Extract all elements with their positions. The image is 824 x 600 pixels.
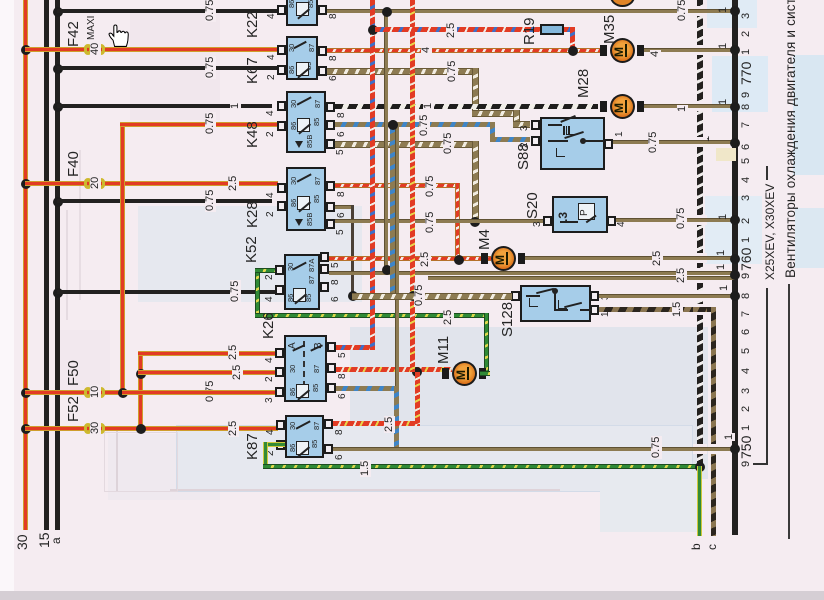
label 1	[423, 102, 434, 110]
label F42	[66, 21, 81, 47]
motor cut at top edge	[610, 0, 635, 7]
S88 internals	[548, 124, 562, 126]
label 1	[230, 102, 241, 110]
label 30	[90, 421, 101, 435]
pin K87/4	[276, 420, 285, 430]
node F50/x122	[118, 388, 128, 398]
wire red vertical x122 (to K48 pin2 / from F50)	[120, 122, 125, 393]
label 20	[90, 176, 101, 190]
label 0.75	[205, 189, 216, 212]
label X25XEV, X30XEV	[764, 184, 776, 280]
node x386 top	[382, 7, 392, 17]
label 2.5	[652, 250, 663, 267]
pin S88/3	[531, 120, 540, 130]
node x140/K26pin2 wire	[136, 369, 146, 379]
node track 763	[730, 6, 740, 16]
label 0.75 F50 wire	[205, 380, 216, 403]
wire M35 to track 761 (brown 4)	[644, 48, 735, 52]
pin K48/8	[326, 102, 335, 112]
wire K26 pin8 red/yellow to M11	[336, 367, 452, 372]
wire K48 pin6 blue/brown	[335, 122, 495, 127]
pin K52/6	[320, 282, 329, 292]
wire blue/brown jog down to S88 pin2	[490, 122, 495, 140]
wire S128 pin3 to track 753 (brown 1)	[599, 294, 735, 298]
label 0.75	[447, 60, 458, 83]
wire F50 cont. to K26 pin3 (red 0.75)	[122, 390, 278, 395]
fuse F40 wire	[25, 181, 278, 186]
wire K28 pin5 brown to S20 pin3	[335, 219, 545, 223]
bus connector track line x735	[732, 0, 738, 535]
wire riser brown x386	[384, 11, 388, 271]
label K22	[245, 11, 260, 38]
wire x122 corner to K48 pin2 (red 0.75)	[120, 122, 278, 127]
node x386 bottom	[382, 265, 392, 275]
motor M28	[600, 101, 607, 112]
label F50	[66, 360, 81, 386]
node track 759	[730, 270, 740, 280]
wire green loop from K52 pin2	[255, 268, 260, 318]
label 2.5	[443, 309, 454, 326]
label 2.5 F52 wire	[228, 420, 239, 437]
wire K28 pin6 brown to x352	[335, 205, 354, 209]
label 4	[650, 50, 661, 58]
node K48pin6/riser (redraw)	[388, 120, 398, 130]
label M11	[436, 336, 451, 364]
wire K26 pin5 red/blue to x372 riser	[336, 345, 374, 350]
label M4	[477, 229, 492, 250]
switch S20	[552, 196, 608, 233]
bus a (black vertical)	[55, 0, 60, 530]
label M35	[602, 15, 617, 44]
pin K26/5	[327, 342, 336, 352]
label K28	[245, 201, 260, 228]
pin K26/8	[327, 363, 336, 373]
pin K48/2	[277, 121, 286, 131]
mouse hand cursor	[106, 22, 131, 49]
pin K67/4	[277, 45, 286, 55]
wire busA to K28 pin2 (black 0.75)	[57, 199, 272, 203]
paper margin left	[0, 0, 14, 600]
wire blue/brown vertical x397 down	[394, 386, 399, 449]
wire S88 pin1 to track 757 (brown 0.75)	[613, 140, 735, 144]
label S88	[516, 143, 531, 170]
wire busA to K67 pin2 (black 0.75)	[57, 66, 277, 70]
pin K87/8	[324, 419, 333, 429]
pale background panel right top	[712, 56, 768, 112]
pin K87/2	[276, 440, 285, 450]
pale background panel mid-left	[138, 206, 362, 302]
label S128	[500, 302, 515, 337]
node bus30/F52	[21, 424, 31, 434]
label 15	[37, 532, 51, 548]
label 1.5	[672, 301, 683, 318]
node track 753	[730, 291, 740, 301]
label K26	[261, 312, 276, 339]
node busA/K52 wire	[53, 288, 63, 298]
pale background panel right upper corner	[707, 0, 757, 28]
wire K52 pin5 red/white to M4	[329, 256, 491, 261]
label 2.5 F40 wire	[228, 175, 239, 192]
label R19	[522, 17, 537, 45]
wire riser blue/brown x392 to S128 wire	[390, 122, 395, 296]
node M4 feed	[454, 255, 464, 265]
label K52	[244, 236, 259, 263]
node track 757	[730, 138, 740, 148]
fuse F42	[84, 44, 92, 55]
pale background panel far right lower	[795, 208, 824, 268]
label 40	[90, 42, 101, 56]
bus 30 (red vertical battery bus)	[23, 0, 28, 530]
pin K52/8	[320, 264, 329, 274]
label 1	[719, 285, 730, 291]
label F40	[66, 151, 81, 177]
node busA/K48 wire	[53, 102, 63, 112]
label 2.5	[232, 364, 243, 381]
wire K67 pin6 brown/white to S88	[327, 68, 477, 75]
pale background panel bottom left	[108, 434, 220, 500]
wire K22 pin8 to track 763 (brown 0.75)	[327, 9, 735, 13]
wire green/yellow long to node b (1.5)	[263, 464, 699, 469]
node track 752	[730, 215, 740, 225]
node bus30/F42	[21, 45, 31, 55]
fuse F42 wire	[25, 47, 278, 52]
node M11 feed / K87 riser	[412, 367, 422, 377]
wire K87 pin8 red/yellow to riser x417	[333, 421, 420, 426]
label 0.75	[443, 132, 454, 155]
pin K26/4	[275, 348, 284, 358]
wire busA to K52 pin4 (black 0.75)	[57, 290, 275, 294]
wire green down to node b	[697, 466, 702, 536]
node bus30/F40	[21, 179, 31, 189]
wire red/white vertical x458 down to M4 wire	[455, 183, 460, 261]
pin K52/4	[275, 285, 284, 295]
label 0.75	[205, 112, 216, 135]
wire K87 pin2 green down	[263, 442, 285, 447]
wire K87 pin6 brown to track 751	[333, 447, 735, 451]
label 0.75	[419, 114, 430, 137]
pin K28/4	[277, 183, 286, 193]
pin K67/2	[277, 65, 286, 75]
node busA/K67 wire	[53, 64, 63, 74]
bracket X25XEV section	[766, 166, 768, 180]
node x475/S20 wire	[470, 217, 480, 227]
gauge labels near connector	[718, 7, 729, 13]
pin S128/1	[590, 305, 599, 315]
wire K48 pin8 black/white to M28	[335, 104, 598, 109]
wire red riser x372	[370, 0, 375, 350]
motor M35	[600, 45, 607, 56]
S128 internals	[526, 295, 540, 297]
label 0.75	[677, 0, 688, 22]
relay K26	[284, 335, 327, 402]
pin K28/2	[277, 201, 286, 211]
label 4	[421, 46, 432, 54]
pin K28/5	[326, 219, 335, 229]
fuse F52 wire	[25, 426, 278, 431]
pale background panel bottom wide	[176, 425, 693, 492]
relay K22	[286, 0, 318, 26]
wire green into M11 right	[480, 371, 490, 376]
motor M11	[442, 368, 449, 379]
wire brown/white to S88 jog	[472, 110, 518, 117]
relay K87	[285, 415, 324, 458]
pin K26/2	[275, 367, 284, 377]
paper bottom edge	[0, 591, 824, 600]
node x412/S128 wire	[408, 291, 418, 301]
label 0.75	[651, 436, 662, 459]
label 0.75	[230, 280, 241, 303]
label 2.5	[446, 22, 457, 39]
resistor R19	[375, 27, 575, 32]
label K67	[245, 57, 260, 84]
label 1	[716, 264, 727, 270]
switch S128	[520, 285, 591, 322]
label 2.5	[228, 344, 239, 361]
wire K52 pin8 brown track 759	[329, 271, 735, 275]
label 0.75	[414, 284, 425, 307]
crossing pads over ground bus	[693, 6, 707, 16]
wire green vertical x487 down to M11	[484, 313, 489, 375]
pin K26/6	[327, 383, 336, 393]
relay K67	[286, 36, 318, 80]
wire brown/white vertical x474	[472, 68, 479, 114]
pin K22/8	[318, 5, 327, 15]
wire busA to K22 pin4 (black 0.75)	[57, 9, 277, 13]
label 1	[716, 250, 727, 256]
current track ruler numbers	[741, 13, 752, 19]
node R19/M35 wire	[568, 46, 578, 56]
caption text	[784, 0, 798, 278]
node track 761	[730, 45, 740, 55]
pin K52/2	[275, 265, 284, 275]
wire K67 pin8 red/white to R19 node and M35	[327, 48, 600, 53]
wire K48 pin5 white/brown	[335, 141, 475, 148]
wire M4 to track 760 (brown 1)	[525, 256, 735, 260]
fuse F50	[84, 387, 92, 398]
pin S128/2	[511, 291, 520, 301]
label 2.5	[384, 416, 395, 433]
wire K28 pin8 red/white to x458	[335, 183, 460, 188]
wire red/yellow riser x417 up to M11 node	[415, 372, 420, 424]
label 0.75	[205, 0, 216, 22]
bus 15 (black vertical ignition bus)	[44, 0, 49, 530]
label 0.75	[425, 211, 436, 234]
label b	[690, 543, 702, 550]
motor M4	[481, 253, 488, 264]
node track 751	[730, 444, 740, 454]
node K48pin6 wire x392	[388, 120, 398, 130]
wire red vertical x140 (F52 to K26)	[138, 351, 143, 429]
node green/b	[695, 462, 705, 472]
caption rule	[788, 284, 790, 539]
wire busA to K48 pin4 (black 1)	[57, 104, 272, 108]
wire riser red/yellow x412	[410, 0, 415, 372]
label MAXI	[87, 16, 97, 40]
faint bleed lines	[170, 489, 560, 491]
node S128 wire/x352	[348, 291, 358, 301]
pin K28/6	[326, 202, 335, 212]
label 0.75	[676, 207, 687, 230]
wire green horizontal to M4 branch	[255, 313, 489, 318]
pin K67/8	[318, 46, 327, 56]
wire x140 to K26 pin4 (red 2.5)	[138, 351, 278, 356]
wire S128 pin1 brown/black to node c	[599, 307, 716, 312]
label c	[706, 544, 718, 550]
wire brown second track 759b	[428, 276, 735, 280]
fuse F52	[84, 423, 92, 434]
pin K28/8	[326, 181, 335, 191]
label 2.5	[420, 251, 431, 268]
wire x140 to K26 pin2 (red 2.5)	[138, 370, 278, 375]
label 0.75	[648, 131, 659, 154]
pin K48/5	[326, 139, 335, 149]
pin K48/6	[326, 120, 335, 130]
node x140/F52	[136, 424, 146, 434]
pale background panel far right	[793, 55, 824, 175]
pin K52/5	[320, 252, 329, 262]
wire S128 pin2 white/brown from x352	[352, 293, 512, 300]
pale background panel center	[350, 327, 708, 479]
wire white/brown vertical x475 to S20 feed node	[472, 141, 479, 223]
wire brown/black vertical to node c	[711, 307, 716, 536]
pin K67/6	[318, 66, 327, 76]
node busA/K22 wire	[53, 7, 63, 17]
wire M28 to track 758 (brown 1)	[644, 104, 735, 108]
wire S20 pin4 to track 752 (brown 0.75)	[616, 218, 735, 222]
pin S128/3	[590, 291, 599, 301]
label 1	[677, 105, 688, 113]
pin S88/2	[531, 136, 540, 146]
label 10	[90, 385, 101, 399]
pin K48/4	[277, 101, 286, 111]
label K48	[245, 121, 260, 148]
node busA/K28 wire	[53, 197, 63, 207]
label a	[50, 537, 62, 544]
pin S20/3	[543, 216, 552, 226]
node track 760-1	[730, 254, 740, 264]
relay K28	[286, 167, 326, 231]
label F52	[66, 396, 81, 422]
relay K52	[284, 254, 320, 310]
label S20	[525, 192, 540, 219]
label 0.75	[425, 175, 436, 198]
bleed yellow patch	[716, 148, 736, 161]
node track 758	[730, 102, 740, 112]
label M28	[576, 69, 591, 98]
wire black/white ground bus x701	[697, 0, 703, 466]
pale background bleed bottom center	[600, 470, 700, 532]
pale background panel right mid	[705, 196, 762, 264]
wire K26 pin6 blue/brown	[336, 386, 398, 391]
wire brown vertical x397 upper	[395, 125, 399, 386]
pin S88/1	[604, 139, 613, 149]
label 30	[15, 534, 29, 550]
pin K87/6	[324, 444, 333, 454]
label 0.75	[205, 56, 216, 79]
label 1	[724, 433, 735, 441]
fuse F50 wire	[25, 390, 278, 395]
node x372/R19 branch	[368, 25, 378, 35]
pin K22/4	[277, 5, 286, 15]
label 2.5	[676, 267, 687, 284]
S20 internals	[557, 212, 569, 222]
switch S88	[540, 117, 605, 170]
label K87	[245, 433, 260, 460]
node bus30/F50	[21, 388, 31, 398]
label 1.5	[360, 460, 371, 477]
relay K48	[286, 91, 326, 153]
fuse F40	[84, 178, 92, 189]
wire thin vertical x352 down to S128 wire	[351, 205, 354, 295]
pin S20/4	[607, 216, 616, 226]
pin K26/3	[275, 387, 284, 397]
